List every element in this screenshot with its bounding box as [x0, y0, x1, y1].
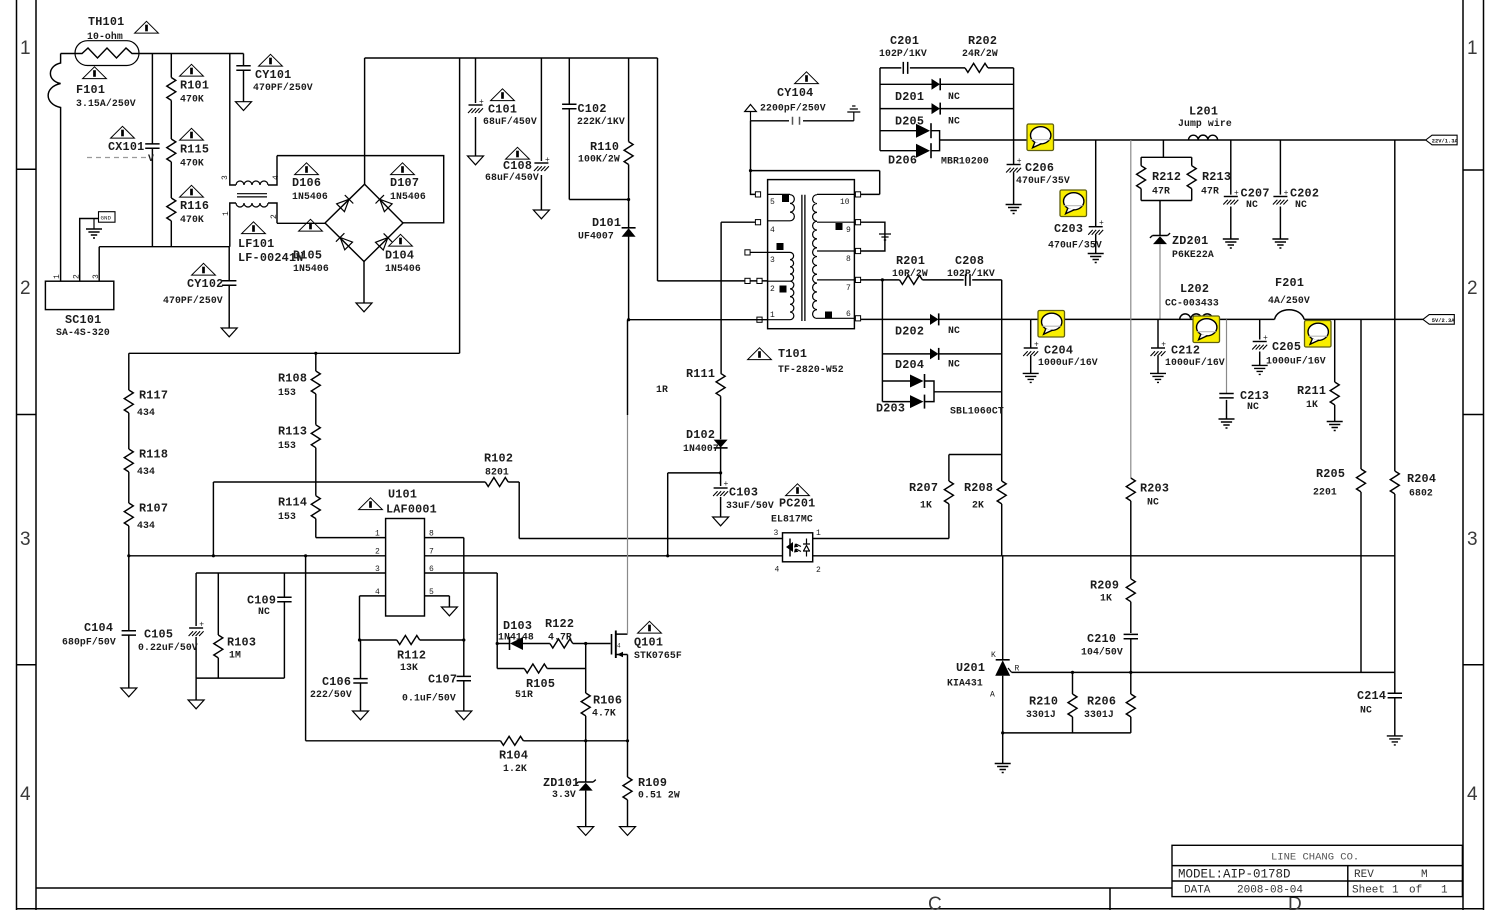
svg-text:2K: 2K — [972, 500, 984, 511]
svg-text:of: of — [1409, 885, 1422, 897]
inductor L202 — [1180, 314, 1213, 320]
svg-text:1: 1 — [20, 38, 31, 59]
svg-text:104/50V: 104/50V — [1081, 647, 1123, 658]
svg-text:PC201: PC201 — [779, 497, 815, 511]
resistor R210 — [1072, 672, 1074, 733]
svg-text:R213: R213 — [1202, 170, 1231, 184]
svg-text:2: 2 — [73, 274, 82, 279]
svg-text:2: 2 — [816, 566, 821, 575]
diode D206 MBR10200 dual — [880, 131, 916, 151]
svg-text:4: 4 — [20, 784, 31, 805]
capacitor CY101 — [243, 54, 245, 102]
svg-text:TF-2820-W52: TF-2820-W52 — [778, 364, 844, 375]
svg-text:Jump wire: Jump wire — [1178, 118, 1232, 129]
resistor R102 — [213, 482, 485, 556]
svg-text:M: M — [1421, 869, 1428, 881]
svg-text:+: + — [199, 621, 204, 630]
svg-text:2: 2 — [270, 214, 279, 219]
svg-text:R108: R108 — [278, 372, 307, 386]
resistors R212 R213 — [1141, 140, 1192, 166]
capacitor CX101 — [151, 54, 153, 247]
svg-text:R212: R212 — [1152, 170, 1181, 184]
svg-text:1: 1 — [1441, 885, 1448, 897]
svg-text:R113: R113 — [278, 425, 307, 439]
svg-text:470PF/250V: 470PF/250V — [253, 82, 313, 93]
svg-text:C104: C104 — [84, 621, 113, 635]
svg-text:9: 9 — [846, 226, 851, 235]
capacitor C108 — [540, 58, 542, 210]
svg-text:4: 4 — [272, 175, 281, 180]
resistor R109 — [623, 777, 632, 800]
svg-text:R110: R110 — [590, 140, 619, 154]
wire B+ rail — [365, 57, 658, 59]
svg-text:R210: R210 — [1029, 695, 1058, 709]
resistor R117 — [128, 353, 130, 449]
svg-text:F101: F101 — [76, 83, 105, 97]
wire R204 long vertical — [1394, 140, 1396, 672]
svg-text:0.22uF/50V: 0.22uF/50V — [138, 642, 198, 653]
svg-text:1M: 1M — [229, 650, 241, 661]
svg-text:R106: R106 — [593, 694, 622, 708]
diode D203 SBL1060CT dual — [882, 381, 910, 402]
svg-text:0.51 2W: 0.51 2W — [638, 790, 680, 801]
wire bottom node — [1003, 732, 1131, 734]
fuse F201 — [1275, 310, 1305, 320]
diode D205 — [880, 108, 1014, 110]
svg-text:SBL1060CT: SBL1060CT — [950, 406, 1004, 417]
svg-text:R112: R112 — [397, 649, 426, 663]
svg-text:4: 4 — [775, 566, 780, 575]
svg-text:R101: R101 — [180, 79, 209, 93]
capacitor C103 — [720, 473, 722, 517]
svg-text:1K: 1K — [1306, 399, 1318, 410]
svg-text:+: + — [479, 98, 484, 107]
callout C206 — [1027, 124, 1054, 151]
svg-text:R: R — [1015, 665, 1020, 674]
svg-text:222K/1KV: 222K/1KV — [577, 116, 625, 127]
capacitor C208 — [966, 274, 970, 286]
diode D103 — [509, 637, 511, 650]
resistor R104 — [306, 740, 501, 742]
svg-text:1: 1 — [816, 529, 821, 538]
svg-text:SA-4S-320: SA-4S-320 — [56, 327, 110, 338]
wire long vertical to B- — [459, 58, 461, 353]
zener ZD201 — [1150, 233, 1170, 244]
svg-text:1: 1 — [1467, 38, 1478, 59]
wire left vertical — [879, 68, 881, 151]
wire pin8 — [425, 538, 464, 640]
wire pin7 row to PC201 — [425, 555, 783, 557]
svg-text:+: + — [1099, 219, 1104, 228]
svg-text:1000uF/16V: 1000uF/16V — [1266, 356, 1326, 367]
resistor R111 — [716, 373, 725, 396]
svg-text:R122: R122 — [545, 617, 574, 631]
wire pin2 down branch — [305, 556, 307, 741]
fuse F101 — [48, 54, 60, 282]
diode D105 — [336, 233, 353, 250]
wire pin7 drop for D204 D203 — [881, 280, 883, 402]
svg-text:24R/2W: 24R/2W — [962, 48, 998, 59]
wire pin6 — [425, 573, 498, 644]
svg-text:7: 7 — [846, 284, 851, 293]
svg-text:470K: 470K — [180, 158, 204, 169]
svg-text:4: 4 — [1467, 784, 1478, 805]
diode D101 — [628, 200, 630, 320]
svg-text:R204: R204 — [1407, 472, 1436, 486]
capacitor C102 — [569, 58, 628, 200]
transistor Q101 MOSFET — [611, 634, 613, 655]
label T101 — [748, 348, 772, 360]
svg-text:22V/1.3A: 22V/1.3A — [1432, 139, 1459, 145]
output tab 5V — [1423, 315, 1455, 325]
svg-text:1: 1 — [375, 530, 380, 539]
svg-text:100K/2W: 100K/2W — [578, 154, 620, 165]
svg-text:5: 5 — [770, 198, 775, 207]
resistor R122 — [550, 639, 573, 648]
svg-text:DATA: DATA — [1184, 885, 1211, 897]
wire Q101 drain/source column — [627, 320, 629, 415]
svg-text:CX101: CX101 — [108, 140, 144, 154]
svg-text:153: 153 — [278, 511, 296, 522]
svg-text:R111: R111 — [686, 367, 715, 381]
svg-text:470uF/35V: 470uF/35V — [1048, 240, 1102, 251]
svg-text:C210: C210 — [1087, 632, 1116, 646]
svg-text:R115: R115 — [180, 143, 209, 157]
diode D104 — [375, 233, 392, 250]
diode D204 — [882, 353, 1001, 355]
diode D201 — [880, 83, 1014, 85]
svg-text:EL817MC: EL817MC — [771, 514, 813, 525]
capacitor C101 — [475, 58, 477, 156]
svg-text:STK0765F: STK0765F — [634, 650, 682, 661]
svg-text:47R: 47R — [1152, 186, 1170, 197]
diode D107 — [376, 195, 393, 212]
svg-text:NC: NC — [1360, 705, 1372, 716]
line filter LF101 — [230, 54, 236, 247]
node bridge diamond — [325, 184, 403, 261]
svg-text:+: + — [724, 480, 729, 489]
svg-text:68uF/450V: 68uF/450V — [485, 172, 539, 183]
svg-text:102P/1KV: 102P/1KV — [947, 268, 995, 279]
wire rail end to T101 pin2 — [658, 58, 768, 281]
title block — [1172, 845, 1462, 896]
svg-text:R102: R102 — [484, 452, 513, 466]
svg-text:470K: 470K — [180, 214, 204, 225]
svg-text:C203: C203 — [1054, 222, 1083, 236]
svg-text:R205: R205 — [1316, 467, 1345, 481]
diode D202 — [861, 318, 1031, 320]
svg-text:C214: C214 — [1357, 689, 1386, 703]
svg-text:2200pF/250V: 2200pF/250V — [760, 103, 826, 114]
resistor R108 — [315, 353, 317, 425]
wire pin4 to R111 — [721, 222, 755, 373]
svg-text:3: 3 — [221, 175, 230, 180]
svg-text:CY101: CY101 — [255, 68, 291, 82]
svg-text:ZD201: ZD201 — [1172, 234, 1208, 248]
zener ZD101 — [585, 741, 587, 782]
svg-text:470PF/250V: 470PF/250V — [163, 295, 223, 306]
svg-text:NC: NC — [948, 116, 960, 127]
svg-text:10: 10 — [840, 198, 850, 207]
svg-text:D202: D202 — [895, 325, 924, 339]
svg-text:C204: C204 — [1044, 344, 1073, 358]
svg-text:R201: R201 — [896, 254, 925, 268]
svg-text:L201: L201 — [1189, 105, 1218, 119]
capacitor C214 — [1394, 672, 1396, 736]
svg-text:R103: R103 — [227, 636, 256, 650]
svg-text:1N4148: 1N4148 — [498, 632, 534, 643]
svg-text:4.7K: 4.7K — [592, 708, 616, 719]
svg-text:R116: R116 — [180, 199, 209, 213]
wire pins 9-8 ground — [861, 222, 885, 251]
svg-text:R117: R117 — [139, 389, 168, 403]
capacitor C109 — [196, 573, 284, 678]
svg-text:1K: 1K — [920, 500, 932, 511]
svg-text:D204: D204 — [895, 358, 924, 372]
svg-text:ZD101: ZD101 — [543, 776, 579, 790]
svg-text:LF101: LF101 — [238, 237, 274, 251]
ground CY104 — [853, 112, 855, 121]
svg-text:222/50V: 222/50V — [310, 689, 352, 700]
wire U201 ref row — [1012, 671, 1395, 673]
resistor R206 — [1126, 694, 1135, 717]
callout C204 — [1038, 311, 1065, 338]
svg-text:33uF/50V: 33uF/50V — [726, 500, 774, 511]
wire 5V rail — [1031, 318, 1423, 320]
resistor R201 — [900, 275, 923, 284]
svg-text:51R: 51R — [515, 689, 533, 700]
svg-text:KIA431: KIA431 — [947, 678, 983, 689]
svg-text:NC: NC — [948, 91, 960, 102]
svg-text:NC: NC — [948, 325, 960, 336]
svg-text:1000uF/16V: 1000uF/16V — [1165, 357, 1225, 368]
svg-text:NC: NC — [258, 606, 270, 617]
svg-text:D102: D102 — [686, 428, 715, 442]
svg-text:1: 1 — [1392, 885, 1399, 897]
callout C212 — [1193, 316, 1220, 343]
svg-text:P6KE22A: P6KE22A — [1172, 249, 1214, 260]
resistor R204 — [1390, 471, 1399, 494]
resistor R114 — [311, 496, 320, 519]
wire bottom AC rail — [99, 246, 229, 248]
svg-text:434: 434 — [137, 407, 155, 418]
svg-text:C208: C208 — [955, 254, 984, 268]
wire B- horizontal — [129, 352, 460, 354]
callout C205 — [1305, 321, 1332, 348]
diode D102 — [714, 440, 728, 448]
wire right vertical — [1013, 68, 1015, 140]
svg-text:2: 2 — [20, 278, 31, 299]
wire pin3 row — [196, 572, 386, 574]
svg-text:D206: D206 — [888, 154, 917, 168]
svg-text:13K: 13K — [400, 662, 418, 673]
svg-text:R202: R202 — [968, 34, 997, 48]
svg-text:1: 1 — [222, 211, 231, 216]
svg-text:R207: R207 — [909, 481, 938, 495]
svg-text:3: 3 — [20, 529, 31, 550]
resistors R207 R208 — [949, 455, 1002, 482]
svg-text:TH101: TH101 — [88, 15, 124, 29]
capacitor C210 — [1124, 634, 1138, 638]
svg-text:D201: D201 — [895, 90, 924, 104]
shunt regulator U201 KIA431 — [1002, 556, 1004, 660]
svg-text:6802: 6802 — [1409, 488, 1433, 499]
resistor R202 — [965, 63, 988, 72]
svg-text:3: 3 — [774, 529, 779, 538]
svg-text:+: + — [1234, 189, 1239, 198]
capacitor C105 — [195, 573, 197, 678]
svg-text:153: 153 — [278, 387, 296, 398]
svg-text:C206: C206 — [1025, 161, 1054, 175]
wire pin4 — [360, 596, 386, 640]
svg-text:8201: 8201 — [485, 467, 509, 478]
svg-text:5V/2.3A: 5V/2.3A — [1432, 318, 1455, 324]
output tab 22V — [1426, 135, 1459, 145]
svg-text:C101: C101 — [488, 103, 517, 117]
svg-text:470K: 470K — [180, 94, 204, 105]
svg-text:1R: 1R — [656, 384, 668, 395]
svg-text:D203: D203 — [876, 402, 905, 416]
svg-text:NC: NC — [1147, 497, 1159, 508]
node antenna triangle — [745, 105, 757, 121]
svg-text:T101: T101 — [778, 347, 807, 361]
svg-text:SC101: SC101 — [65, 313, 101, 327]
svg-text:A: A — [990, 691, 995, 700]
svg-text:C107: C107 — [428, 673, 457, 687]
capacitor C203 — [1095, 140, 1097, 254]
capacitor C204 — [1030, 319, 1032, 373]
wire C103 branch to lower rail — [668, 473, 721, 556]
wire top AC rail — [61, 53, 244, 55]
svg-text:1: 1 — [53, 274, 62, 279]
resistor R116 — [167, 198, 176, 221]
capacitor C212 — [1157, 319, 1159, 373]
svg-text:8: 8 — [846, 255, 851, 264]
capacitor C206 — [1013, 140, 1015, 205]
wire bridge box — [277, 156, 444, 224]
svg-text:680pF/50V: 680pF/50V — [62, 637, 116, 648]
secondary winding — [813, 194, 855, 318]
svg-text:CY102: CY102 — [187, 277, 223, 291]
pin squares — [755, 192, 760, 197]
resistor R115 — [167, 139, 176, 162]
svg-text:R203: R203 — [1140, 482, 1169, 496]
svg-text:NC: NC — [1246, 199, 1258, 210]
primary winding pins 3-1 — [750, 252, 794, 319]
callout C203 — [1060, 190, 1087, 217]
svg-text:1N5406: 1N5406 — [385, 263, 421, 274]
svg-text:R104: R104 — [499, 749, 528, 763]
svg-text:10-ohm: 10-ohm — [87, 31, 123, 42]
resistor R106 — [585, 669, 587, 741]
wire PC201 pin2 row — [813, 555, 1395, 557]
svg-text:4A/250V: 4A/250V — [1268, 295, 1310, 306]
svg-text:1K: 1K — [1100, 593, 1112, 604]
svg-text:C: C — [928, 894, 942, 910]
svg-text:3: 3 — [1467, 529, 1478, 550]
svg-text:C212: C212 — [1171, 344, 1200, 358]
svg-text:C102: C102 — [578, 102, 607, 116]
wire pin5/pin10 bridge — [751, 171, 880, 195]
svg-text:Q101: Q101 — [634, 636, 663, 650]
resistor R112 — [360, 639, 397, 641]
svg-text:0.1uF/50V: 0.1uF/50V — [402, 693, 456, 704]
svg-text:CC-003433: CC-003433 — [1165, 298, 1219, 309]
capacitor C104 — [128, 556, 130, 688]
ground — [93, 219, 95, 230]
svg-text:F201: F201 — [1275, 276, 1304, 290]
svg-text:47R: 47R — [1201, 186, 1219, 197]
capacitor C107 — [463, 640, 465, 711]
svg-text:R209: R209 — [1090, 579, 1119, 593]
svg-text:R118: R118 — [139, 448, 168, 462]
svg-text:3: 3 — [92, 274, 101, 279]
svg-text:D101: D101 — [592, 216, 621, 230]
capacitor C205 — [1259, 319, 1261, 365]
svg-text:D107: D107 — [390, 176, 419, 190]
IC U101 LAF0001 — [386, 519, 425, 617]
ground bridge — [363, 262, 365, 304]
svg-text:1N5406: 1N5406 — [292, 191, 328, 202]
svg-text:434: 434 — [137, 466, 155, 477]
svg-text:D105: D105 — [293, 249, 322, 263]
svg-text:1.2K: 1.2K — [503, 763, 527, 774]
wire 22V rail — [1014, 139, 1426, 141]
wire PC201 pin1 row — [813, 538, 949, 540]
warning triangle TH101 — [135, 21, 159, 33]
thermistor TH101 — [75, 41, 139, 66]
svg-text:CY104: CY104 — [777, 86, 813, 100]
resistor R113 — [311, 425, 320, 448]
svg-text:3: 3 — [770, 256, 775, 265]
svg-text:2008-08-04: 2008-08-04 — [1237, 885, 1303, 897]
inductor L201 — [1189, 135, 1218, 140]
resistor R203 — [1126, 478, 1135, 501]
svg-text:MODEL:AIP-0178D: MODEL:AIP-0178D — [1178, 868, 1291, 882]
svg-text:Sheet: Sheet — [1352, 885, 1385, 897]
capacitor CY102 — [228, 247, 230, 328]
wire pin5 ground — [425, 596, 450, 607]
svg-text:R206: R206 — [1087, 695, 1116, 709]
svg-text:C201: C201 — [890, 34, 919, 48]
svg-text:3.15A/250V: 3.15A/250V — [76, 98, 136, 109]
svg-text:NC: NC — [948, 359, 960, 370]
svg-text:UF4007: UF4007 — [578, 231, 614, 242]
svg-text:K: K — [991, 651, 996, 660]
svg-text:C103: C103 — [729, 486, 758, 500]
primary winding pins 5-4 — [768, 194, 795, 220]
svg-text:LAF0001: LAF0001 — [386, 503, 437, 517]
capacitor C213 — [1226, 319, 1228, 393]
svg-text:1N5406: 1N5406 — [293, 263, 329, 274]
svg-text:68uF/450V: 68uF/450V — [483, 116, 537, 127]
svg-text:C105: C105 — [144, 628, 173, 642]
svg-text:2201: 2201 — [1313, 487, 1337, 498]
svg-text:C205: C205 — [1272, 340, 1301, 354]
svg-text:1: 1 — [770, 311, 775, 320]
svg-text:+: + — [1263, 334, 1268, 343]
resistor R103 — [217, 573, 219, 678]
svg-text:10R/2W: 10R/2W — [892, 268, 928, 279]
wire CY104 to T101 pin5 — [751, 121, 756, 195]
svg-text:4.7R: 4.7R — [548, 632, 572, 643]
svg-text:R208: R208 — [964, 481, 993, 495]
svg-text:1N5406: 1N5406 — [390, 191, 426, 202]
svg-text:MBR10200: MBR10200 — [941, 156, 989, 167]
svg-text:D106: D106 — [292, 176, 321, 190]
connector SC101 — [45, 281, 113, 309]
svg-text:R107: R107 — [139, 502, 168, 516]
